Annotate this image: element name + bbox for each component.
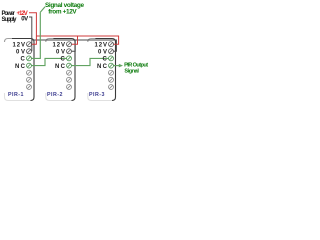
svg-text:C: C <box>61 57 66 63</box>
svg-text:PIR Output: PIR Output <box>124 62 148 68</box>
svg-text:NC: NC <box>15 64 26 70</box>
svg-text:C: C <box>103 57 108 63</box>
svg-text:12V: 12V <box>13 42 26 48</box>
svg-text:12V: 12V <box>95 42 108 48</box>
svg-text:0V: 0V <box>56 50 65 56</box>
svg-text:Power: Power <box>2 11 16 17</box>
svg-text:PIR-1: PIR-1 <box>8 92 24 98</box>
svg-text:Signal: Signal <box>124 68 139 74</box>
svg-text:NC: NC <box>97 64 108 70</box>
svg-text:PIR-2: PIR-2 <box>47 92 63 98</box>
svg-text:0V: 0V <box>98 50 107 56</box>
svg-text:Supply: Supply <box>2 17 18 23</box>
svg-text:0V: 0V <box>21 16 28 22</box>
svg-text:NC: NC <box>55 64 66 70</box>
svg-text:PIR-3: PIR-3 <box>89 92 105 98</box>
svg-text:0V: 0V <box>16 50 25 56</box>
svg-text:from +12V: from +12V <box>48 8 77 15</box>
svg-text:12V: 12V <box>53 42 66 48</box>
svg-text:C: C <box>21 57 26 63</box>
